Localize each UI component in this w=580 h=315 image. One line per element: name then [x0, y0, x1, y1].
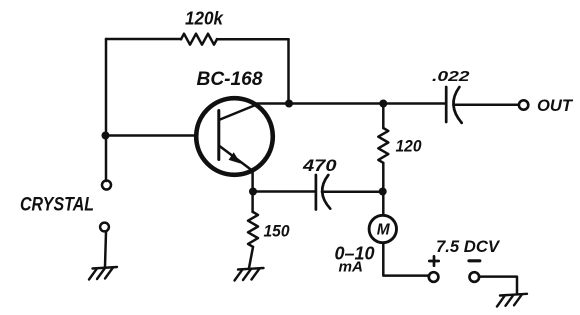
junction node base-feedback: [102, 132, 110, 140]
wire emitter junction to C 470: [253, 190, 315, 193]
svg-text:470: 470: [302, 156, 337, 175]
svg-text:.022: .022: [432, 68, 470, 85]
terminal crystal lower: [100, 223, 109, 232]
transistor Q1 emitter arrowhead: [229, 152, 241, 163]
wire node to meter M: [382, 192, 385, 216]
wire C 470 to node: [322, 191, 383, 194]
wire C .022 to OUT terminal: [454, 103, 518, 106]
svg-text:OUT: OUT: [537, 97, 574, 115]
wire R 120 bottom to node: [382, 163, 385, 192]
terminal OUT: [519, 100, 528, 109]
capacitor C2 470 left plate: [315, 175, 318, 210]
transistor Q1 emitter lead: [219, 146, 252, 171]
wire base horizontal: [106, 134, 196, 137]
svg-text:7.5 DCV: 7.5 DCV: [436, 237, 501, 256]
svg-text:BC-168: BC-168: [197, 69, 263, 90]
wire collector horizontal: [256, 102, 445, 105]
transistor Q1 collector lead: [220, 104, 258, 120]
terminal crystal upper: [102, 181, 111, 190]
resistor R2 120: [378, 128, 388, 163]
wire minus terminal to ground: [480, 277, 517, 293]
wire feedback vertical: [287, 39, 290, 103]
capacitor C1 .022 right plate: [453, 87, 461, 123]
transistor Q1 circle: [196, 98, 273, 175]
label plus: [429, 256, 438, 265]
capacitor C1 .022 left plate: [445, 87, 448, 122]
terminal battery plus: [429, 272, 439, 282]
wire node to R 120 top: [382, 104, 385, 129]
transistor Q1 base bar: [217, 111, 220, 160]
svg-text:150: 150: [264, 222, 290, 241]
wire crystal lower terminal to ground: [105, 232, 106, 267]
wire emitter vertical to junction: [251, 169, 254, 212]
ground battery: [497, 294, 527, 307]
junction node R120 top: [379, 100, 387, 108]
svg-text:mA: mA: [339, 259, 364, 276]
svg-text:M: M: [377, 222, 391, 239]
svg-text:120k: 120k: [185, 9, 224, 29]
wire left vertical: [105, 39, 108, 181]
svg-text:CRYSTAL: CRYSTAL: [20, 195, 94, 216]
junction node R120 bottom: [379, 188, 387, 196]
svg-text:120: 120: [396, 137, 422, 156]
resistor R1 120k: [181, 34, 217, 45]
ground emitter: [235, 268, 264, 281]
resistor R3 150: [248, 212, 258, 247]
junction node emitter: [249, 188, 257, 196]
meter M circle: [369, 215, 396, 242]
wire top horizontal left of R 120k: [106, 38, 181, 41]
ground crystal: [89, 267, 117, 280]
terminal battery minus: [470, 272, 480, 282]
label minus: [469, 259, 480, 262]
wire R 150 bottom to ground: [249, 247, 253, 268]
wire top horizontal right of R 120k: [217, 38, 289, 41]
junction node collector-feedback: [285, 100, 293, 108]
capacitor C2 470 right plate: [322, 175, 330, 209]
wire meter M to plus terminal: [383, 243, 428, 276]
